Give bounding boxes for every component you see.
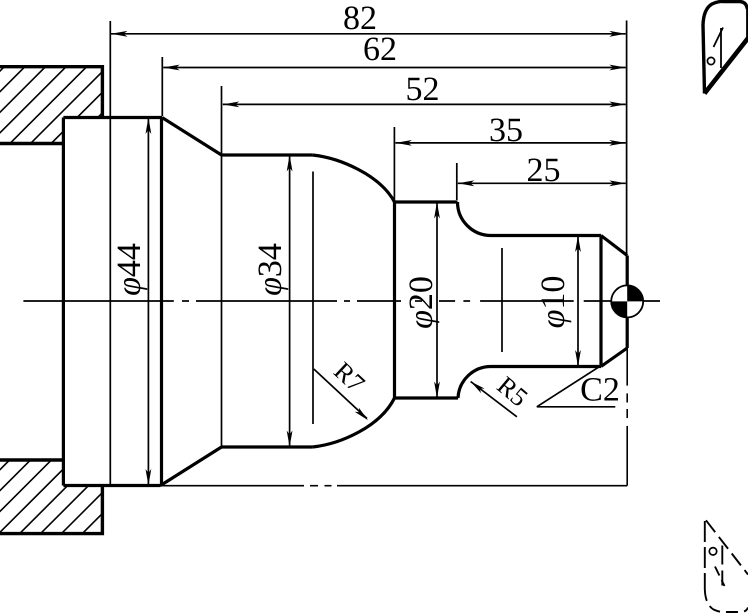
phi44 bottom edge — [63, 484, 160, 487]
dimension line 82 — [111, 33, 626, 35]
left face — [62, 118, 65, 486]
svg-text:52: 52 — [406, 71, 440, 108]
phi20 bottom edge — [395, 396, 459, 399]
part profile — [63, 118, 627, 486]
phi10 top edge — [491, 234, 601, 237]
dimension line phi34 — [289, 155, 291, 447]
centerline segment 6 — [415, 300, 422, 302]
chamfer bottom C2 — [601, 348, 627, 367]
centerline segment 8 — [463, 300, 470, 302]
centerline segment 2 — [182, 300, 189, 302]
extension line 52 left (x=221.5) — [221, 86, 223, 447]
arrowhead phi20 bottom — [434, 382, 440, 399]
phi44 top edge — [63, 116, 162, 119]
arrowhead 52 right — [609, 102, 626, 108]
extension line 25 left (x=457) — [456, 163, 458, 200]
phi20 left edge — [393, 202, 396, 398]
svg-text:62: 62 — [363, 31, 397, 68]
arrowhead 62 left — [163, 65, 180, 71]
C2 leader + label — [537, 349, 627, 409]
svg-text:25: 25 — [527, 152, 561, 189]
arrowhead 62 right — [609, 65, 626, 71]
chamfer top C2 — [601, 236, 627, 256]
svg-text:35: 35 — [489, 112, 523, 149]
phi44/cone seam — [160, 118, 163, 486]
centerline segment 1 — [23, 300, 173, 302]
seam at arc start x=313 — [312, 172, 314, 425]
bottom jaw outline upper — [0, 458, 63, 461]
tool icon bottom right (dashed) — [705, 520, 748, 612]
bottom jaw outline lower — [0, 486, 102, 534]
svg-text:C2: C2 — [580, 372, 620, 409]
stock outline right vertical (dash-dot) — [626, 348, 628, 386]
hatch lines top jaw — [0, 58, 198, 154]
dimension line 52 — [223, 103, 626, 105]
dimension line phi20 — [436, 202, 438, 398]
phi34 bottom edge — [222, 445, 313, 448]
dimension texts — [111, 0, 572, 329]
centerline segment 7 — [439, 300, 455, 302]
phi10/chamfer seam — [599, 236, 602, 367]
centerline segment 10 — [584, 300, 660, 302]
arrowheads — [111, 31, 626, 486]
R7 leader + label — [314, 356, 370, 420]
arrowhead 35 right — [609, 140, 626, 146]
extension line right common (x=627) — [626, 21, 628, 256]
dimension line 25 — [458, 182, 626, 184]
arrowhead 35 left — [395, 140, 412, 146]
arrowhead 25 left — [458, 180, 475, 186]
shoulder arc top (R7) — [313, 155, 395, 202]
seam at phi10 start x=502 — [501, 248, 503, 352]
arrowhead phi20 top — [434, 202, 440, 219]
svg-text:φ10: φ10 — [535, 276, 572, 329]
phi10 bottom edge — [491, 365, 601, 368]
centerline segment 3 — [196, 300, 337, 302]
origin symbol — [611, 285, 643, 317]
extension line 82 left (x=110) — [109, 21, 111, 486]
arrowhead 82 left — [111, 31, 128, 37]
top jaw outline lower — [0, 142, 63, 145]
dimension line phi10 — [577, 236, 579, 367]
arrowhead phi34 top — [287, 155, 293, 172]
chuck jaw top (hatched) — [0, 58, 198, 154]
svg-text:φ34: φ34 — [252, 243, 289, 296]
arrowhead 82 right — [609, 31, 626, 37]
arrowhead 52 left — [223, 102, 240, 108]
fillet R5 top — [458, 202, 492, 236]
arrowhead phi34 bottom — [287, 431, 293, 448]
extension line 62 left (x=162) — [161, 57, 163, 116]
dimension line 62 — [163, 67, 626, 69]
tool icon top right — [703, 1, 748, 93]
phi34 top edge — [222, 153, 313, 156]
hatch lines bottom jaw — [0, 452, 206, 550]
dimension line 35 — [395, 142, 625, 144]
taper bottom — [161, 447, 222, 486]
stock outline bottom line (thin) — [161, 485, 305, 487]
top jaw outline upper — [0, 67, 102, 118]
svg-text:φ20: φ20 — [403, 276, 440, 329]
centerline segment 4 — [344, 300, 350, 302]
taper top — [162, 118, 222, 156]
thin seam lines — [313, 172, 502, 425]
extension line 35 left (x=394) — [393, 127, 395, 201]
centerline segment 5 — [357, 300, 401, 302]
end face — [626, 256, 629, 349]
R5 leader + label — [471, 371, 534, 417]
arrowhead phi44 bottom — [146, 469, 152, 486]
dimension line phi44 — [147, 118, 149, 486]
phi20 top edge — [395, 200, 458, 203]
chuck jaw bottom (hatched) — [0, 452, 206, 550]
shoulder arc bottom (R7) — [313, 398, 395, 447]
fillet R5 bottom — [458, 367, 491, 399]
arrowhead phi10 top — [575, 236, 581, 253]
svg-text:φ44: φ44 — [111, 243, 148, 296]
arrowhead phi44 top — [146, 118, 152, 135]
arrowhead phi10 bottom — [575, 350, 581, 367]
centerline segment 9 — [480, 300, 574, 302]
arrowhead 25 right — [609, 180, 626, 186]
